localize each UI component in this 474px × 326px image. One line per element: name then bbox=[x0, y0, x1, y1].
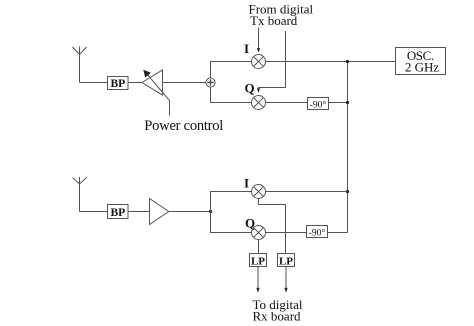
svg-text:BP: BP bbox=[110, 78, 125, 90]
wire split to Rx I mixer bbox=[211, 192, 252, 212]
wire LO node to oscillator bbox=[348, 61, 396, 63]
wire M4 to phase shifter P2 bbox=[266, 232, 307, 234]
wire M2 to phase shifter bbox=[266, 102, 308, 104]
Tx Q input wire with arrow bbox=[257, 31, 286, 93]
wire split to Rx Q mixer bbox=[211, 212, 252, 233]
output arrow from LP1 bbox=[256, 267, 259, 293]
svg-text:2 GHz: 2 GHz bbox=[405, 60, 440, 75]
phase shifter P2 (-90 deg, Rx) bbox=[307, 226, 328, 239]
antenna ANT2 (Rx) bbox=[73, 177, 87, 212]
wire antenna1 to BP1 bbox=[80, 82, 108, 84]
phase shifter P1 (-90 deg, Tx) bbox=[308, 98, 329, 111]
mixer M2 (Tx Q) bbox=[252, 96, 266, 110]
Rx Q mixer output to LP1 bbox=[258, 240, 260, 254]
junction dot split bbox=[209, 210, 212, 213]
variable-gain amplifier A1 (Tx, points left) bbox=[142, 70, 167, 97]
oscillator U1 (OSC. 2 GHz) bbox=[396, 48, 446, 75]
svg-text:BP: BP bbox=[110, 207, 125, 219]
svg-text:Q: Q bbox=[245, 80, 255, 95]
wire amplifier to split node bbox=[169, 211, 211, 213]
wire phase shifter P1 to LO line bbox=[329, 102, 348, 104]
wire summer to Q mixer row bbox=[211, 87, 252, 102]
mixer M3 (Rx I) bbox=[252, 185, 266, 199]
wire amplifier to summer bbox=[163, 82, 206, 84]
label From digital / Tx board bbox=[249, 2, 314, 28]
svg-text:I: I bbox=[244, 176, 249, 191]
label To digital / Rx board bbox=[253, 297, 303, 324]
svg-text:Tx board: Tx board bbox=[250, 13, 298, 28]
wire summer to I mixer row bbox=[211, 62, 252, 78]
antenna ANT1 (Tx) bbox=[73, 47, 87, 83]
junction dot LO/P1 bbox=[346, 101, 349, 104]
LO distribution line bbox=[347, 62, 349, 233]
wire antenna2 to BP2 bbox=[80, 211, 108, 213]
wire BP2 to amplifier bbox=[128, 211, 150, 213]
svg-text:Power control: Power control bbox=[144, 118, 223, 134]
wire M1 to LO node bbox=[266, 61, 348, 63]
svg-text:LP: LP bbox=[279, 256, 293, 268]
amplifier A2 (Rx LNA, points right) bbox=[150, 199, 169, 225]
lowpass filter LP2 bbox=[278, 254, 295, 268]
mixer M1 (Tx I) bbox=[252, 55, 266, 69]
Rx I mixer output to LP2 bbox=[259, 199, 286, 254]
junction dot LO/M3 bbox=[346, 190, 349, 193]
wire M3 to LO line bbox=[266, 191, 348, 193]
svg-text:I: I bbox=[244, 41, 249, 56]
wire BP1 to amplifier bbox=[128, 82, 142, 84]
wire LO line to phase shifter P2 bbox=[328, 232, 348, 234]
mixer M4 (Rx Q) bbox=[252, 226, 266, 240]
junction dot LO/OSC bbox=[346, 60, 349, 63]
svg-text:Rx board: Rx board bbox=[253, 309, 302, 324]
svg-text:-90°: -90° bbox=[309, 227, 326, 238]
output arrow from LP2 bbox=[284, 267, 287, 293]
svg-text:-90°: -90° bbox=[310, 99, 327, 110]
bandpass filter BP2 bbox=[108, 205, 129, 219]
lowpass filter LP1 bbox=[250, 254, 267, 268]
summer S1 bbox=[206, 78, 215, 87]
bandpass filter BP1 bbox=[108, 77, 129, 90]
Tx I input arrow bbox=[257, 28, 260, 53]
power control wire bbox=[167, 97, 170, 116]
svg-text:LP: LP bbox=[251, 256, 265, 268]
